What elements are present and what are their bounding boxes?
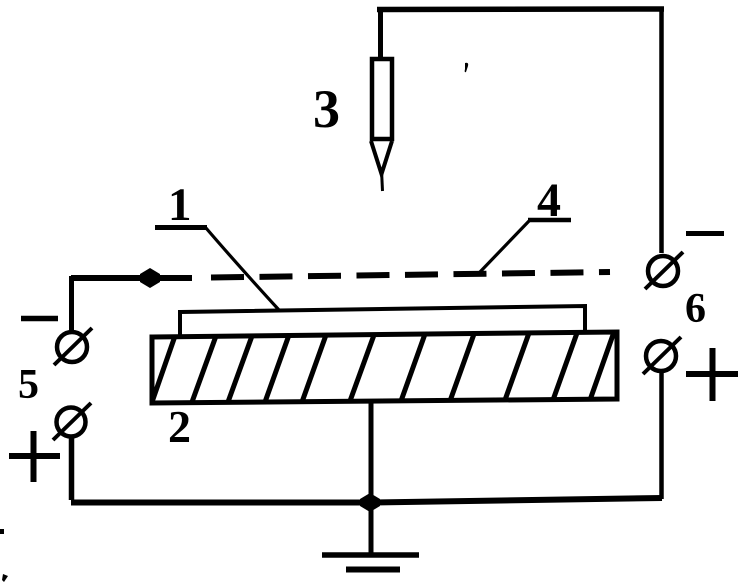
electrode 3 tip <box>371 141 392 174</box>
terminal clamp 6b (circle with slash) <box>646 341 676 371</box>
svg-text:2: 2 <box>168 401 191 452</box>
wire: left vertical from corner down to terminal 5 upper clamp <box>69 276 74 331</box>
terminal clamp 5b (circle with slash) <box>57 408 86 437</box>
svg-text:1: 1 <box>168 179 192 231</box>
junction node (dot) on bottom bus <box>360 493 380 512</box>
svg-text:5: 5 <box>18 362 39 408</box>
wire: right vertical from top wire down to terminal 6 upper clamp <box>659 8 664 253</box>
plus sign of terminal 6 <box>686 371 738 377</box>
speck (scan noise) left margin lower <box>2 574 8 582</box>
wire: solid segment from left corner to junction <box>71 275 192 281</box>
wire: from terminal 5b down to bottom bus <box>69 437 75 500</box>
label 1 leader line to plate <box>206 228 279 310</box>
hatching of base 2 <box>152 332 614 402</box>
plus sign of terminal 5 <box>9 453 60 459</box>
electrode 3 tip point stub <box>382 170 383 191</box>
label 4 leader line to dashed plane <box>479 221 529 273</box>
terminal clamp 5a (circle with slash) <box>57 332 87 362</box>
wire: bottom horizontal bus <box>71 498 662 503</box>
dashed line 4 (charging plane) <box>211 272 610 278</box>
svg-text:6: 6 <box>685 286 706 332</box>
ground symbol bar 2 <box>346 567 400 573</box>
plate 1 (sample sheet on the base) <box>180 306 585 337</box>
svg-text:3: 3 <box>313 79 340 139</box>
label 1 underline <box>155 225 207 230</box>
base electrode 2 (hatched grounded plate) <box>152 332 617 403</box>
label 4 underline <box>528 218 571 223</box>
speck (scan noise) near electrode <box>465 63 469 72</box>
terminal clamp 6a (circle with slash) <box>648 256 678 286</box>
ground symbol bar 1 <box>322 552 419 558</box>
speck (scan noise) left margin upper <box>0 529 4 534</box>
wire: vertical drop from top wire to electrode 3 <box>378 8 383 58</box>
minus sign of terminal 5 <box>21 316 58 322</box>
junction node (dot) on left wire <box>140 268 160 288</box>
wire: from base 2 down to ground <box>369 401 374 553</box>
minus sign of terminal 6 <box>686 231 724 236</box>
wire: from terminal 6b down to bottom bus <box>659 371 664 499</box>
wire: top horizontal from electrode to right terminal branch <box>377 6 664 12</box>
electrode 3 body (corona needle barrel) <box>372 59 392 139</box>
